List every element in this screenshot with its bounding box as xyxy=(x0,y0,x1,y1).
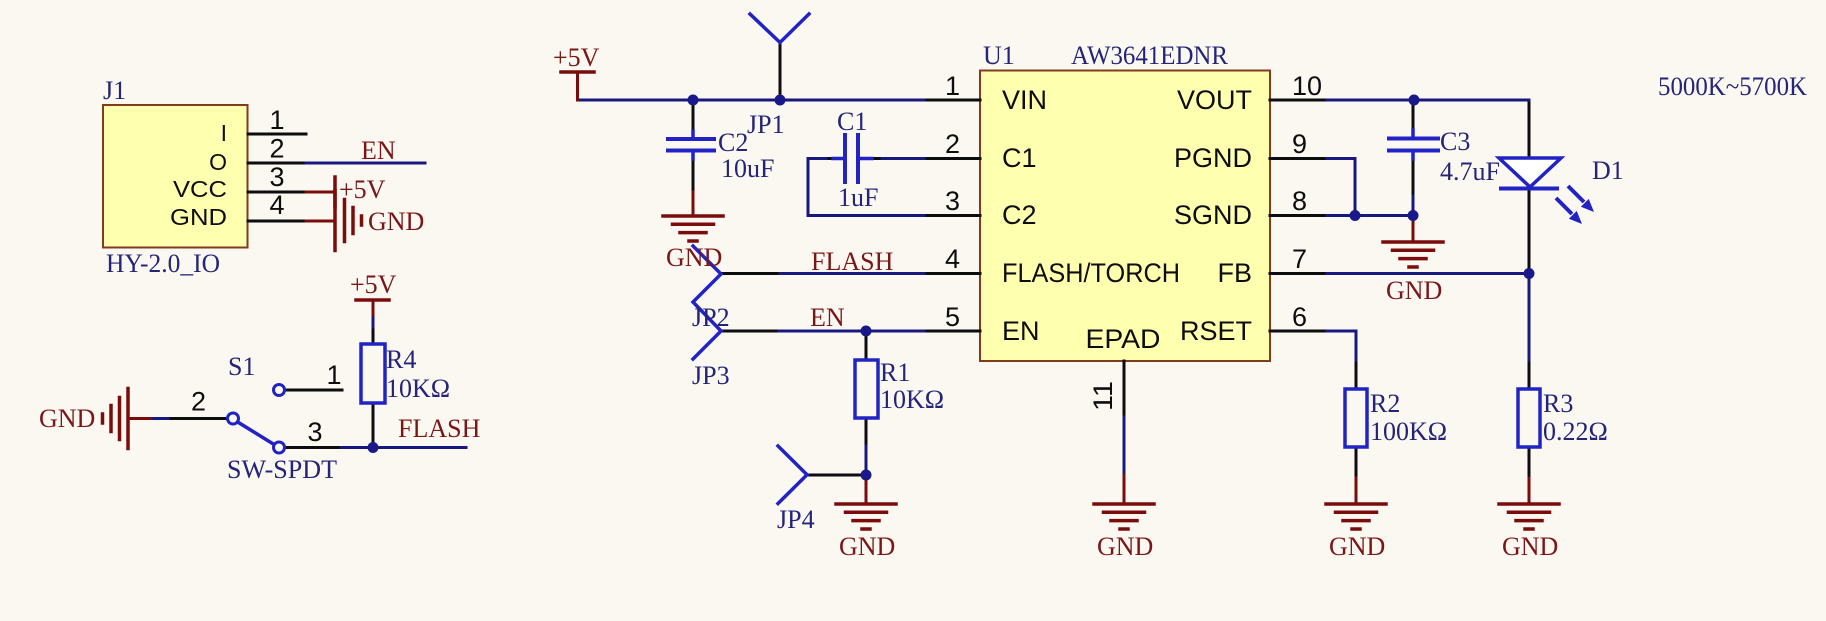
svg-text:EN: EN xyxy=(810,303,845,332)
svg-text:GND: GND xyxy=(1386,276,1442,305)
svg-text:HY-2.0_IO: HY-2.0_IO xyxy=(106,249,220,278)
svg-text:2: 2 xyxy=(945,129,960,159)
svg-text:GND: GND xyxy=(1329,532,1385,561)
svg-text:GND: GND xyxy=(39,404,95,433)
svg-text:C2: C2 xyxy=(1002,200,1037,230)
svg-text:4: 4 xyxy=(945,244,960,274)
svg-text:FB: FB xyxy=(1217,258,1252,288)
svg-text:3: 3 xyxy=(945,186,960,216)
svg-text:R2: R2 xyxy=(1370,389,1400,418)
svg-text:3: 3 xyxy=(307,417,322,447)
svg-text:EN: EN xyxy=(1002,316,1040,346)
svg-text:FLASH/TORCH: FLASH/TORCH xyxy=(1002,258,1180,288)
svg-text:10KΩ: 10KΩ xyxy=(880,385,944,414)
svg-text:RSET: RSET xyxy=(1180,316,1252,346)
svg-text:EN: EN xyxy=(361,136,396,165)
svg-text:0.22Ω: 0.22Ω xyxy=(1543,417,1608,446)
svg-text:10uF: 10uF xyxy=(721,154,774,183)
svg-text:S1: S1 xyxy=(228,352,255,381)
svg-text:GND: GND xyxy=(666,243,722,272)
svg-text:PGND: PGND xyxy=(1174,143,1252,173)
svg-text:GND: GND xyxy=(170,204,227,230)
svg-text:100KΩ: 100KΩ xyxy=(1370,417,1447,446)
svg-text:C1: C1 xyxy=(837,107,867,136)
svg-text:J1: J1 xyxy=(103,76,126,105)
svg-text:U1: U1 xyxy=(983,41,1015,70)
svg-text:9: 9 xyxy=(1292,129,1307,159)
svg-text:+5V: +5V xyxy=(350,270,397,299)
svg-text:R4: R4 xyxy=(386,345,416,374)
svg-text:10: 10 xyxy=(1292,71,1322,101)
svg-text:JP3: JP3 xyxy=(692,361,730,390)
svg-text:D1: D1 xyxy=(1592,156,1624,185)
svg-text:VCC: VCC xyxy=(173,176,227,202)
svg-text:+5V: +5V xyxy=(553,43,600,72)
svg-text:+5V: +5V xyxy=(339,175,386,204)
svg-text:7: 7 xyxy=(1292,244,1307,274)
svg-text:1uF: 1uF xyxy=(838,183,878,212)
svg-text:VOUT: VOUT xyxy=(1177,85,1252,115)
svg-text:3: 3 xyxy=(269,162,284,192)
svg-text:VIN: VIN xyxy=(1002,85,1047,115)
svg-text:JP2: JP2 xyxy=(692,303,730,332)
svg-text:1: 1 xyxy=(326,360,341,390)
svg-text:10KΩ: 10KΩ xyxy=(386,374,450,403)
svg-text:FLASH: FLASH xyxy=(811,247,894,276)
svg-text:GND: GND xyxy=(368,207,424,236)
svg-text:5: 5 xyxy=(945,302,960,332)
svg-text:6: 6 xyxy=(1292,302,1307,332)
svg-text:4.7uF: 4.7uF xyxy=(1440,157,1500,186)
svg-text:1: 1 xyxy=(269,105,284,135)
svg-text:FLASH: FLASH xyxy=(398,414,481,443)
svg-text:R1: R1 xyxy=(880,358,910,387)
svg-text:2: 2 xyxy=(269,134,284,164)
svg-text:11: 11 xyxy=(1088,381,1118,411)
svg-text:AW3641EDNR: AW3641EDNR xyxy=(1071,41,1229,70)
svg-text:SW-SPDT: SW-SPDT xyxy=(227,455,337,484)
svg-text:1: 1 xyxy=(945,71,960,101)
svg-text:GND: GND xyxy=(1097,532,1153,561)
svg-text:JP4: JP4 xyxy=(777,505,815,534)
svg-text:C3: C3 xyxy=(1440,127,1470,156)
svg-text:R3: R3 xyxy=(1543,389,1573,418)
svg-text:O: O xyxy=(209,149,227,175)
svg-text:JP1: JP1 xyxy=(747,110,785,139)
svg-text:SGND: SGND xyxy=(1174,200,1252,230)
svg-text:C1: C1 xyxy=(1002,143,1037,173)
svg-text:GND: GND xyxy=(839,532,895,561)
svg-text:4: 4 xyxy=(269,190,284,220)
svg-text:EPAD: EPAD xyxy=(1086,324,1161,354)
svg-text:5000K~5700K: 5000K~5700K xyxy=(1658,72,1807,101)
svg-text:GND: GND xyxy=(1502,532,1558,561)
svg-text:I: I xyxy=(221,120,227,146)
svg-text:8: 8 xyxy=(1292,186,1307,216)
svg-text:C2: C2 xyxy=(718,128,748,157)
svg-text:2: 2 xyxy=(191,387,206,417)
